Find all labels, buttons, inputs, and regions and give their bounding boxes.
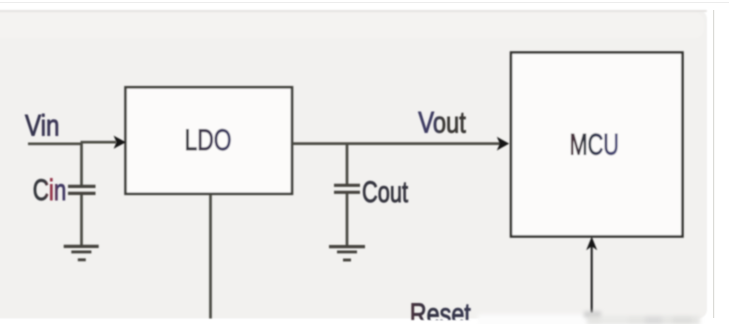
arrowhead into MCU bbox=[497, 137, 509, 151]
capacitor C1 Cin plates bbox=[68, 185, 96, 188]
watermark gray patches bbox=[584, 312, 700, 324]
wire Cin to ground bbox=[80, 195, 83, 247]
bottom white band bbox=[0, 320, 729, 324]
wire Cout to ground bbox=[346, 194, 349, 247]
wire junction to LDO bbox=[81, 141, 117, 144]
wire Cout drop bbox=[346, 145, 349, 186]
svg-text:Cout: Cout bbox=[362, 176, 408, 209]
faint top hairline bbox=[0, 2, 729, 3]
right faint separator line bbox=[713, 10, 714, 318]
MCU box U2 bbox=[511, 53, 683, 237]
svg-text:Cin: Cin bbox=[33, 174, 67, 207]
svg-text:MCU: MCU bbox=[570, 128, 620, 161]
wire Vin input segment bbox=[28, 142, 82, 145]
svg-text:LDO: LDO bbox=[185, 124, 232, 157]
arrowhead into LDO bbox=[114, 136, 126, 149]
wire Cin drop bbox=[80, 143, 83, 186]
svg-text:Vin: Vin bbox=[25, 109, 60, 142]
capacitor C2 Cout plates bbox=[334, 184, 360, 187]
LDO box U1 bbox=[126, 87, 293, 194]
ground GND2 bbox=[329, 245, 365, 248]
wire Reset line to MCU bbox=[591, 246, 593, 313]
wire LDO ground stub bbox=[209, 195, 212, 319]
wire Vout from LDO to MCU bbox=[292, 142, 502, 145]
watermark white fade bbox=[478, 315, 590, 324]
svg-text:Vout: Vout bbox=[418, 107, 466, 140]
arrowhead up into MCU bbox=[586, 237, 597, 251]
ground GND1 bbox=[64, 245, 99, 248]
